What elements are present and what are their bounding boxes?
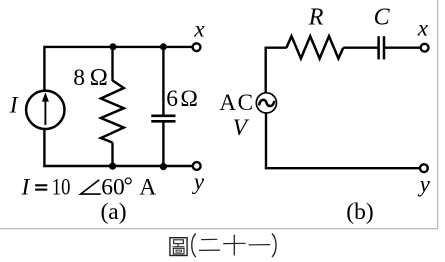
current source arrow: [42, 92, 49, 125]
svg-text:I: I: [21, 175, 31, 201]
wire: circuit (a) bottom horizontal: [43, 165, 192, 167]
current source I circle: [26, 91, 64, 129]
wire: resistor branch bottom: [111, 143, 113, 167]
svg-text:AC: AC: [219, 89, 254, 115]
svg-text:6: 6: [166, 86, 178, 112]
svg-text:°: °: [124, 173, 133, 199]
svg-text:60: 60: [101, 175, 125, 201]
svg-text:A: A: [139, 175, 156, 201]
capacitor C left plate: [377, 36, 380, 59]
wire: circuit (b) left vertical lower: [265, 113, 267, 169]
caption: CJK character shi (ten): [223, 235, 246, 256]
junction dot bottom-right node: [160, 163, 167, 170]
caption: CJK character er (two): [199, 239, 220, 250]
svg-text:y: y: [418, 171, 431, 196]
capacitor C right plate: [383, 36, 386, 59]
svg-text:(b): (b): [346, 199, 373, 225]
angle symbol: [81, 180, 101, 194]
caption: open paren: [192, 234, 196, 258]
wire: circuit (a) left vertical lower: [43, 129, 45, 167]
svg-text:(a): (a): [100, 199, 126, 225]
resistor R zigzag: [286, 36, 343, 58]
wire: circuit (a) left vertical upper: [43, 46, 45, 91]
caption: CJK character tu (figure): [170, 238, 187, 256]
svg-text:y: y: [192, 169, 205, 194]
svg-text:Ω: Ω: [180, 86, 197, 112]
svg-text:8: 8: [73, 65, 85, 91]
wire: circuit (b) bottom horizontal: [265, 167, 420, 169]
junction dot bottom-left node: [109, 163, 116, 170]
svg-text:R: R: [308, 4, 324, 30]
terminal x (b): [421, 44, 429, 52]
svg-text:10: 10: [52, 175, 71, 201]
wire: circuit (b) top segment 2: [343, 47, 377, 49]
equation I = 10 angle 60 deg A: [21, 173, 157, 201]
wire: capacitor branch bottom: [162, 121, 164, 166]
AC source sine wave: [259, 100, 274, 106]
caption: CJK character yi (one): [249, 244, 270, 246]
wire: circuit (b) left vertical upper: [265, 47, 267, 93]
terminal y (a): [193, 162, 201, 170]
wire: resistor branch top: [111, 47, 113, 81]
caption: close paren: [272, 234, 276, 258]
capacitor 6 ohm top plate: [151, 115, 175, 118]
capacitor 6 ohm bottom plate: [151, 120, 175, 123]
svg-text:x: x: [193, 17, 205, 42]
terminal x (a): [193, 43, 201, 51]
svg-text:Ω: Ω: [90, 64, 108, 91]
junction dot top-right node: [160, 43, 167, 50]
wire: circuit (a) top horizontal: [44, 46, 192, 48]
wire: circuit (b) top segment 3: [384, 47, 421, 49]
wire: capacitor branch top: [162, 47, 164, 116]
AC source circle: [256, 93, 276, 113]
resistor 8 ohm zigzag: [101, 81, 124, 143]
svg-text:x: x: [417, 16, 429, 41]
junction dot top-left node: [110, 43, 117, 50]
svg-text:I: I: [9, 93, 19, 119]
terminal y (b): [420, 164, 428, 172]
svg-text:C: C: [374, 5, 391, 31]
wire: circuit (b) top segment 1: [266, 47, 287, 49]
